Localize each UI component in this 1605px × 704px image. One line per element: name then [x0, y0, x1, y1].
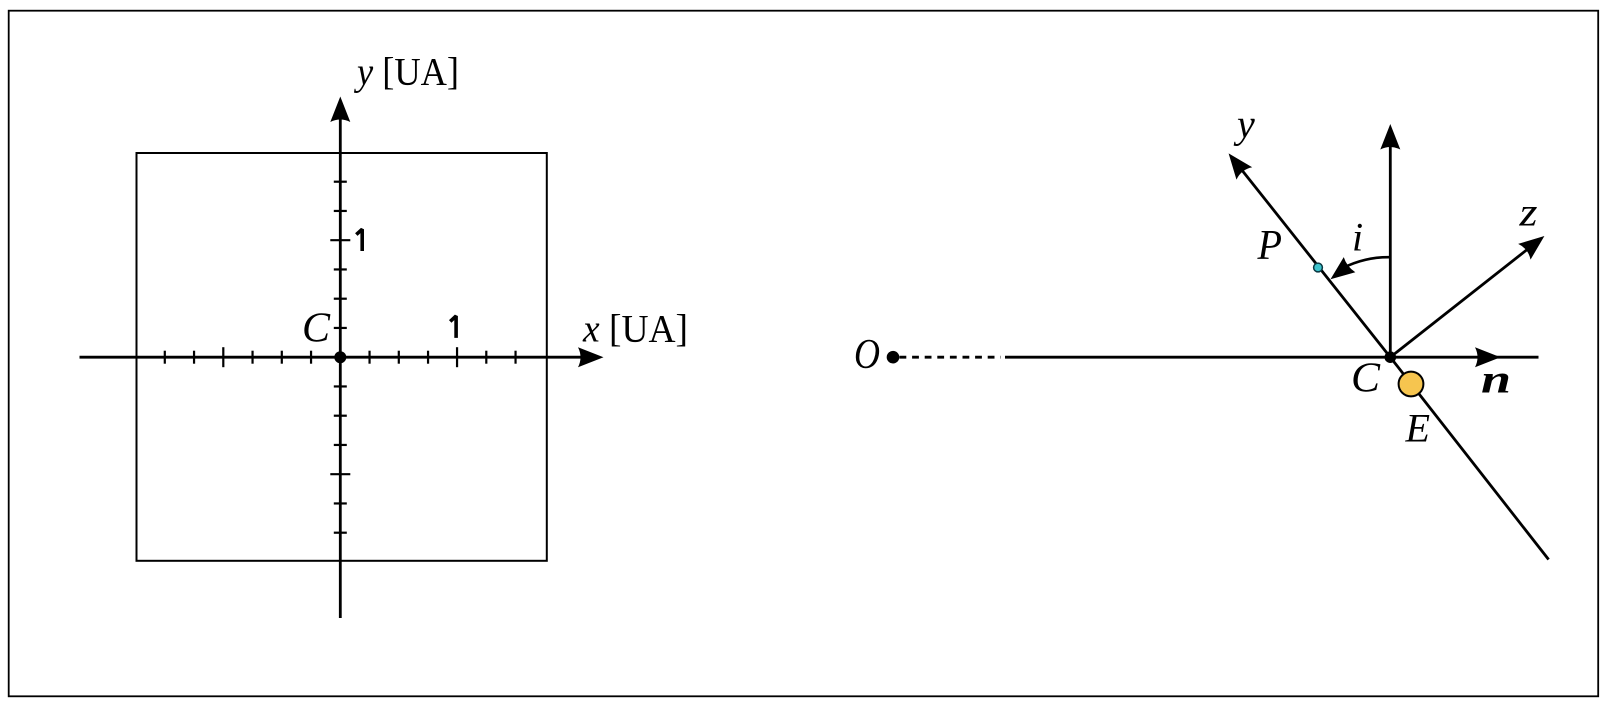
- y axis arrowhead: [330, 97, 350, 123]
- y axis line: [339, 115, 342, 618]
- y-axis ticks: [330, 182, 350, 533]
- svg-text:P: P: [1257, 223, 1282, 269]
- planet E (yellow disc): [1399, 372, 1424, 397]
- arc arrowhead: [1325, 257, 1356, 287]
- point C (right panel): [1385, 351, 1397, 363]
- x-axis ticks: [165, 347, 516, 367]
- n direction arrowhead: [1475, 347, 1501, 367]
- svg-text:x [UA]: x [UA]: [582, 308, 688, 351]
- y axis arrowhead (right panel): [1221, 147, 1252, 179]
- y axis of orbit (up-left): [1242, 171, 1390, 358]
- svg-text:O: O: [854, 332, 880, 378]
- label 1 on x axis: [450, 316, 456, 338]
- z axis arrowhead: [1518, 228, 1550, 259]
- point P (cyan dot): [1314, 263, 1323, 272]
- orbit line extension through C down-right: [1390, 357, 1548, 559]
- z axis (up-right): [1390, 247, 1530, 357]
- left panel: square boundary: [137, 153, 547, 561]
- line of sight (solid horizontal): [1005, 356, 1539, 359]
- svg-text:y: y: [1233, 102, 1255, 147]
- point O: [887, 351, 900, 364]
- svg-text:i: i: [1352, 215, 1363, 260]
- vertical reference arrowhead: [1380, 124, 1400, 150]
- inclination arc i: [1343, 257, 1390, 268]
- svg-text:C: C: [302, 306, 331, 352]
- svg-text:z: z: [1518, 190, 1538, 235]
- dotted segment O to line of sight: [900, 356, 1001, 359]
- origin point C (left panel): [334, 351, 346, 363]
- svg-text:y [UA]: y [UA]: [353, 51, 459, 94]
- x axis line: [80, 356, 586, 359]
- svg-text:n: n: [1481, 356, 1511, 401]
- label 1 on y axis: [356, 229, 362, 251]
- vertical reference line from C: [1389, 145, 1392, 357]
- svg-text:E: E: [1404, 405, 1430, 450]
- svg-text:C: C: [1351, 356, 1381, 402]
- x axis arrowhead: [578, 347, 604, 367]
